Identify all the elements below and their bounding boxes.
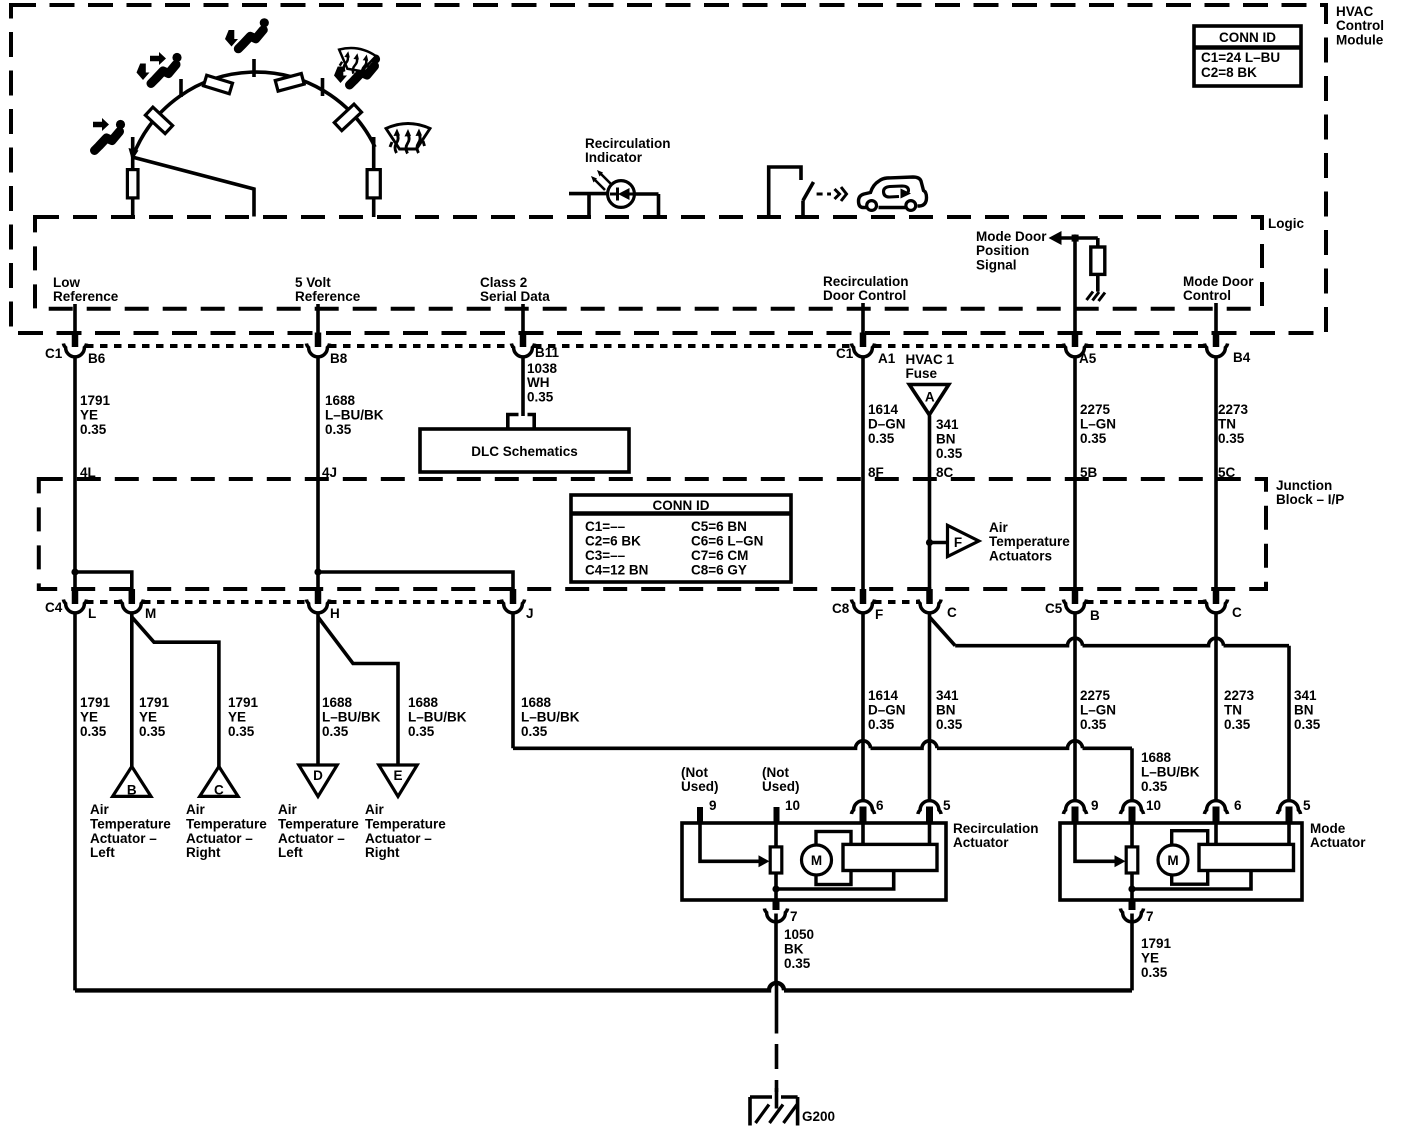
svg-text:1688: 1688 bbox=[1141, 750, 1172, 765]
HVAC Control Module box bbox=[11, 5, 1326, 333]
svg-text:Left: Left bbox=[278, 845, 303, 860]
recirc actuator pins 9,10 stubs bbox=[697, 807, 703, 823]
svg-text:B: B bbox=[127, 782, 137, 797]
svg-text:Reference: Reference bbox=[295, 289, 361, 304]
svg-text:C5=6 BN: C5=6 BN bbox=[691, 519, 747, 534]
svg-text:0.35: 0.35 bbox=[1218, 431, 1245, 446]
mode motor bbox=[1172, 831, 1208, 885]
svg-text:G200: G200 bbox=[802, 1109, 835, 1124]
svg-text:1614: 1614 bbox=[868, 688, 899, 703]
svg-text:Temperature: Temperature bbox=[278, 816, 359, 831]
svg-text:YE: YE bbox=[139, 710, 157, 725]
svg-text:5C: 5C bbox=[1218, 465, 1236, 480]
CONN ID table (HVAC module) bbox=[1194, 26, 1301, 86]
branch to M bbox=[71, 568, 78, 575]
svg-text:C1=24 L–BU: C1=24 L–BU bbox=[1201, 50, 1280, 65]
dial tick marks bbox=[133, 59, 374, 170]
svg-text:0.35: 0.35 bbox=[1080, 717, 1107, 732]
svg-text:Left: Left bbox=[90, 845, 115, 860]
dial wiper bbox=[134, 158, 254, 217]
svg-text:Control: Control bbox=[1336, 18, 1384, 33]
wires to C1/C2 connectors bbox=[75, 303, 1216, 333]
svg-text:7: 7 bbox=[790, 909, 798, 924]
svg-text:C3=––: C3=–– bbox=[585, 548, 626, 563]
connector pin at x=1216 bbox=[1213, 589, 1220, 604]
svg-text:C5: C5 bbox=[1045, 601, 1063, 616]
recirc arrow inside car bbox=[884, 186, 909, 197]
svg-text:L–BU/BK: L–BU/BK bbox=[322, 710, 381, 725]
connector pin at x=1075 bbox=[1072, 589, 1079, 604]
mode actuator pin 6 connector bbox=[1204, 801, 1227, 814]
connector pin at x=318 bbox=[315, 333, 322, 348]
svg-text:0.35: 0.35 bbox=[1141, 779, 1168, 794]
ground bus wire bbox=[75, 983, 1132, 990]
svg-text:5 Volt: 5 Volt bbox=[295, 275, 331, 290]
connector pin at x=131.8 bbox=[129, 589, 136, 604]
svg-text:L–BU/BK: L–BU/BK bbox=[408, 710, 467, 725]
svg-text:B6: B6 bbox=[88, 351, 106, 366]
svg-text:Recirculation: Recirculation bbox=[823, 274, 909, 289]
svg-text:Serial Data: Serial Data bbox=[480, 289, 550, 304]
svg-text:Control: Control bbox=[1183, 288, 1231, 303]
Logic box bbox=[35, 217, 1262, 309]
connector pin at x=523 bbox=[520, 333, 527, 348]
svg-text:C2=8 BK: C2=8 BK bbox=[1201, 65, 1257, 80]
branch M to triangle C bbox=[132, 617, 219, 767]
dial end resistor left bbox=[131, 156, 135, 170]
connector pin at x=863 bbox=[860, 333, 867, 348]
svg-text:0.35: 0.35 bbox=[784, 956, 811, 971]
wires F,C,B,C down to actuators bbox=[863, 614, 1216, 801]
LED light arrows bbox=[595, 174, 611, 190]
svg-text:Air: Air bbox=[365, 802, 385, 817]
mode actuator pin 9 connector bbox=[1063, 801, 1086, 814]
mode actuator pin 10 connector bbox=[1120, 801, 1143, 814]
svg-text:Right: Right bbox=[365, 845, 400, 860]
svg-text:Air: Air bbox=[989, 520, 1009, 535]
svg-text:Air: Air bbox=[186, 802, 206, 817]
svg-text:A: A bbox=[925, 390, 935, 405]
svg-text:L–BU/BK: L–BU/BK bbox=[325, 408, 384, 423]
recirc feedback wire bbox=[776, 871, 894, 890]
svg-text:L–BU/BK: L–BU/BK bbox=[521, 710, 580, 725]
svg-text:1614: 1614 bbox=[868, 402, 899, 417]
svg-text:D–GN: D–GN bbox=[868, 703, 906, 718]
svg-text:C7=6 CM: C7=6 CM bbox=[691, 548, 748, 563]
svg-text:0.35: 0.35 bbox=[527, 389, 554, 404]
svg-text:9: 9 bbox=[709, 798, 717, 813]
svg-text:2275: 2275 bbox=[1080, 688, 1111, 703]
svg-text:0.35: 0.35 bbox=[868, 717, 895, 732]
triangle E bbox=[379, 765, 417, 796]
DLC bracket bbox=[508, 415, 534, 429]
svg-text:0.35: 0.35 bbox=[228, 724, 255, 739]
svg-text:B4: B4 bbox=[1233, 350, 1251, 365]
svg-text:TN: TN bbox=[1218, 417, 1236, 432]
svg-text:Logic: Logic bbox=[1268, 216, 1304, 231]
svg-text:BK: BK bbox=[784, 942, 804, 957]
svg-text:Block – I/P: Block – I/P bbox=[1276, 492, 1344, 507]
svg-text:5: 5 bbox=[943, 798, 951, 813]
svg-text:YE: YE bbox=[80, 408, 98, 423]
Junction Block - I/P box bbox=[39, 479, 1266, 589]
small ground hatch bbox=[1087, 292, 1106, 302]
triangle C bbox=[200, 767, 238, 797]
svg-text:A5: A5 bbox=[1079, 351, 1097, 366]
svg-text:0.35: 0.35 bbox=[936, 446, 963, 461]
svg-text:8C: 8C bbox=[936, 465, 954, 480]
mode selector dial arc bbox=[133, 72, 375, 156]
svg-text:6: 6 bbox=[876, 798, 884, 813]
svg-text:C: C bbox=[947, 605, 957, 620]
branch H to triangle E bbox=[318, 617, 398, 765]
mode pin10 wire bbox=[1130, 822, 1134, 889]
switch actuation dashed arrow bbox=[817, 193, 831, 196]
connector pin at x=863 bbox=[860, 589, 867, 604]
recirc motor bbox=[816, 832, 851, 885]
svg-text:Used): Used) bbox=[762, 779, 800, 794]
svg-text:Actuator –: Actuator – bbox=[186, 831, 253, 846]
seat icon left bbox=[95, 120, 126, 151]
mode pot drive bbox=[1075, 822, 1116, 861]
svg-text:B8: B8 bbox=[330, 351, 348, 366]
svg-text:341: 341 bbox=[936, 688, 959, 703]
svg-text:L: L bbox=[88, 606, 96, 621]
svg-text:10: 10 bbox=[785, 798, 800, 813]
mode feedback wire bbox=[1132, 871, 1251, 890]
svg-text:Recirculation: Recirculation bbox=[585, 136, 671, 151]
svg-text:Low: Low bbox=[53, 275, 80, 290]
dial resistor 3 on arc bbox=[275, 73, 304, 91]
recirc pin10 wire bbox=[774, 822, 778, 889]
svg-text:M: M bbox=[811, 853, 822, 868]
svg-text:6: 6 bbox=[1234, 798, 1242, 813]
svg-text:0.35: 0.35 bbox=[1141, 965, 1168, 980]
svg-text:4J: 4J bbox=[322, 465, 337, 480]
svg-text:C: C bbox=[214, 782, 224, 797]
svg-text:10: 10 bbox=[1146, 798, 1161, 813]
svg-text:1791: 1791 bbox=[228, 695, 259, 710]
recirc pot drive bbox=[700, 822, 760, 861]
connector pin at x=513 bbox=[510, 589, 517, 604]
dial end resistor right bbox=[367, 170, 380, 198]
branch to J bbox=[314, 568, 321, 575]
connector pin at x=318 bbox=[315, 589, 322, 604]
connector pin at x=1216 bbox=[1213, 333, 1220, 348]
svg-text:L–GN: L–GN bbox=[1080, 703, 1116, 718]
svg-text:L–GN: L–GN bbox=[1080, 417, 1116, 432]
svg-text:8F: 8F bbox=[868, 465, 884, 480]
svg-text:HVAC: HVAC bbox=[1336, 4, 1374, 19]
connector pin at x=75 bbox=[72, 333, 79, 348]
recirc pins 6,5 bbox=[851, 801, 874, 814]
svg-text:1688: 1688 bbox=[408, 695, 439, 710]
svg-text:Recirculation: Recirculation bbox=[953, 821, 1039, 836]
svg-text:YE: YE bbox=[1141, 951, 1159, 966]
recirculation actuator box bbox=[682, 823, 946, 900]
svg-text:BN: BN bbox=[936, 703, 956, 718]
svg-text:1791: 1791 bbox=[1141, 936, 1172, 951]
svg-text:Air: Air bbox=[90, 802, 110, 817]
svg-text:0.35: 0.35 bbox=[868, 431, 895, 446]
svg-text:Right: Right bbox=[186, 845, 221, 860]
wire H to triangle D bbox=[316, 614, 320, 766]
recirculation door switch bbox=[769, 167, 814, 217]
svg-text:Actuator –: Actuator – bbox=[278, 831, 345, 846]
svg-text:1688: 1688 bbox=[521, 695, 552, 710]
connector pin at x=929.5 bbox=[926, 589, 933, 604]
svg-text:Module: Module bbox=[1336, 32, 1384, 47]
defrost icon far right bbox=[386, 124, 430, 154]
connector pin at x=75 bbox=[72, 589, 79, 604]
svg-text:A1: A1 bbox=[878, 351, 896, 366]
svg-text:HVAC 1: HVAC 1 bbox=[906, 352, 955, 367]
car icon bbox=[859, 177, 927, 208]
svg-text:1688: 1688 bbox=[325, 393, 356, 408]
svg-text:2275: 2275 bbox=[1080, 402, 1111, 417]
svg-text:Actuators: Actuators bbox=[989, 548, 1052, 563]
svg-text:C1: C1 bbox=[836, 346, 854, 361]
triangle B bbox=[113, 767, 151, 797]
svg-text:Temperature: Temperature bbox=[186, 816, 267, 831]
wire J horizontal with hops bbox=[513, 741, 1132, 748]
svg-text:Mode Door: Mode Door bbox=[1183, 274, 1254, 289]
seat icon upper-left bbox=[151, 53, 182, 84]
junction block wires bbox=[75, 358, 1216, 590]
svg-text:9: 9 bbox=[1091, 798, 1099, 813]
svg-text:Actuator –: Actuator – bbox=[365, 831, 432, 846]
mode pin 7 bbox=[1129, 900, 1136, 910]
svg-text:1791: 1791 bbox=[80, 695, 111, 710]
ground drop dashed bbox=[775, 985, 779, 1034]
dial resistor 1 on arc bbox=[145, 107, 172, 133]
svg-text:C2=6 BK: C2=6 BK bbox=[585, 534, 641, 549]
seat icon top bbox=[238, 18, 269, 49]
svg-text:YE: YE bbox=[80, 710, 98, 725]
svg-text:0.35: 0.35 bbox=[1080, 431, 1107, 446]
DLC wire bbox=[521, 358, 525, 417]
svg-text:0.35: 0.35 bbox=[408, 724, 435, 739]
svg-text:0.35: 0.35 bbox=[139, 724, 166, 739]
resistor bbox=[1091, 247, 1105, 274]
recirc potentiometer bbox=[770, 847, 782, 873]
svg-text:Temperature: Temperature bbox=[90, 816, 171, 831]
svg-text:C8: C8 bbox=[832, 601, 850, 616]
svg-text:Reference: Reference bbox=[53, 289, 119, 304]
mode actuator box bbox=[1060, 823, 1302, 900]
mode actuator pin 5 connector bbox=[1277, 801, 1300, 814]
svg-text:YE: YE bbox=[228, 710, 246, 725]
svg-text:M: M bbox=[1167, 853, 1178, 868]
svg-text:5B: 5B bbox=[1080, 465, 1098, 480]
svg-text:D: D bbox=[313, 768, 323, 783]
row1 connector dotted line bbox=[86, 344, 307, 348]
svg-text:F: F bbox=[954, 535, 962, 550]
svg-text:Actuator –: Actuator – bbox=[90, 831, 157, 846]
svg-text:Junction: Junction bbox=[1276, 478, 1332, 493]
svg-text:341: 341 bbox=[1294, 688, 1317, 703]
svg-text:Indicator: Indicator bbox=[585, 150, 643, 165]
svg-text:0.35: 0.35 bbox=[1224, 717, 1251, 732]
svg-text:Mode: Mode bbox=[1310, 821, 1346, 836]
svg-text:B11: B11 bbox=[535, 345, 560, 360]
svg-text:H: H bbox=[330, 606, 340, 621]
svg-text:Door Control: Door Control bbox=[823, 288, 906, 303]
svg-text:0.35: 0.35 bbox=[80, 422, 107, 437]
svg-text:B: B bbox=[1090, 608, 1100, 623]
dial resistor 2 on arc bbox=[203, 75, 232, 93]
svg-text:C8=6 GY: C8=6 GY bbox=[691, 563, 747, 578]
svg-text:TN: TN bbox=[1224, 703, 1242, 718]
row2 connector dotted line bbox=[86, 600, 121, 604]
svg-text:0.35: 0.35 bbox=[322, 724, 349, 739]
svg-text:0.35: 0.35 bbox=[936, 717, 963, 732]
wire J down bbox=[511, 614, 515, 749]
branch C8-C to mode pin 5 bbox=[930, 617, 956, 646]
svg-text:0.35: 0.35 bbox=[80, 724, 107, 739]
svg-text:C6=6 L–GN: C6=6 L–GN bbox=[691, 534, 763, 549]
svg-text:1050: 1050 bbox=[784, 927, 814, 942]
svg-text:Actuator: Actuator bbox=[1310, 835, 1366, 850]
svg-text:BN: BN bbox=[1294, 703, 1314, 718]
svg-text:L–BU/BK: L–BU/BK bbox=[1141, 765, 1200, 780]
triangle F bbox=[926, 539, 933, 546]
svg-text:2273: 2273 bbox=[1218, 402, 1249, 417]
svg-text:Used): Used) bbox=[681, 779, 719, 794]
svg-text:1038: 1038 bbox=[527, 361, 558, 376]
svg-text:J: J bbox=[526, 606, 534, 621]
triangle D bbox=[299, 765, 337, 796]
svg-text:0.35: 0.35 bbox=[1294, 717, 1321, 732]
svg-text:BN: BN bbox=[936, 432, 956, 447]
svg-text:1688: 1688 bbox=[322, 695, 353, 710]
svg-text:DLC Schematics: DLC Schematics bbox=[471, 444, 578, 459]
svg-text:(Not: (Not bbox=[681, 765, 708, 780]
svg-text:0.35: 0.35 bbox=[521, 724, 548, 739]
svg-text:1791: 1791 bbox=[80, 393, 111, 408]
connector pin at x=1075 bbox=[1072, 333, 1079, 348]
wire A5 from junction bbox=[1073, 238, 1077, 333]
svg-text:Actuator: Actuator bbox=[953, 835, 1009, 850]
wire L down and along bottom bbox=[73, 614, 77, 991]
wire M to triangle B bbox=[130, 614, 134, 767]
svg-text:7: 7 bbox=[1146, 909, 1154, 924]
svg-text:C1: C1 bbox=[45, 346, 63, 361]
G200 ground symbol bbox=[750, 1097, 798, 1126]
svg-text:C4: C4 bbox=[45, 600, 63, 615]
mode position sensor bbox=[1199, 844, 1294, 870]
svg-text:0.35: 0.35 bbox=[325, 422, 352, 437]
svg-text:4L: 4L bbox=[80, 465, 96, 480]
svg-text:C1=––: C1=–– bbox=[585, 519, 626, 534]
svg-text:C4=12 BN: C4=12 BN bbox=[585, 563, 648, 578]
svg-text:1791: 1791 bbox=[139, 695, 170, 710]
svg-text:M: M bbox=[145, 606, 156, 621]
svg-text:(Not: (Not bbox=[762, 765, 789, 780]
svg-text:5: 5 bbox=[1303, 798, 1311, 813]
dial resistor 4 on arc bbox=[334, 104, 361, 130]
DLC Schematics box bbox=[420, 429, 629, 472]
svg-text:WH: WH bbox=[527, 375, 550, 390]
svg-text:Class 2: Class 2 bbox=[480, 275, 527, 290]
svg-text:C: C bbox=[1232, 605, 1242, 620]
svg-text:E: E bbox=[393, 768, 402, 783]
svg-text:341: 341 bbox=[936, 417, 959, 432]
recirc pin 7 bbox=[773, 900, 780, 910]
svg-text:F: F bbox=[875, 607, 883, 622]
svg-text:2273: 2273 bbox=[1224, 688, 1255, 703]
svg-text:Position: Position bbox=[976, 243, 1029, 258]
mode potentiometer bbox=[1126, 847, 1138, 873]
defrost+seat icon right bbox=[350, 54, 381, 85]
svg-text:Fuse: Fuse bbox=[906, 366, 938, 381]
svg-text:Temperature: Temperature bbox=[989, 534, 1070, 549]
svg-text:Air: Air bbox=[278, 802, 298, 817]
recirc position sensor bbox=[843, 844, 937, 870]
svg-text:Mode Door: Mode Door bbox=[976, 229, 1047, 244]
svg-text:Signal: Signal bbox=[976, 257, 1017, 272]
svg-text:CONN ID: CONN ID bbox=[1219, 30, 1276, 45]
svg-text:D–GN: D–GN bbox=[868, 417, 906, 432]
CONN ID table (junction block) bbox=[571, 495, 791, 582]
svg-text:CONN ID: CONN ID bbox=[653, 498, 710, 513]
svg-text:Temperature: Temperature bbox=[365, 816, 446, 831]
